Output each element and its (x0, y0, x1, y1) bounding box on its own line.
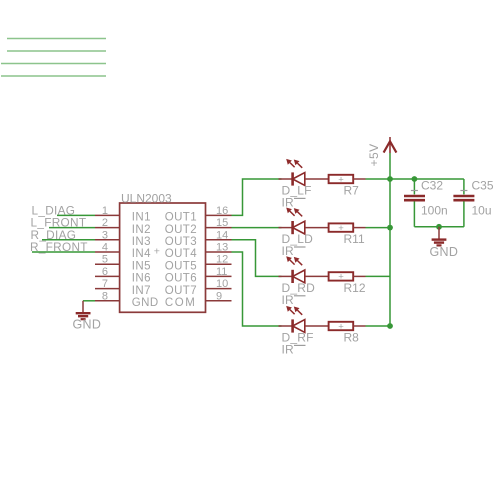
pin 9 stub (206, 300, 232, 302)
svg-text:3: 3 (102, 229, 108, 241)
wire ghost net 1 (faint, top-left) (7, 38, 106, 40)
wire OUT1 riser (232, 179, 282, 215)
wire ghost net 3 (faint, top-left) (1, 63, 106, 65)
svg-text:IR: IR (282, 343, 295, 357)
svg-text:16: 16 (216, 205, 228, 217)
wire net R_FRONT (32, 251, 95, 253)
IR overline D_LF (294, 197, 306, 199)
capacitor C32 (404, 191, 425, 201)
svg-text:+5V: +5V (367, 143, 381, 166)
svg-text:GND: GND (430, 245, 459, 259)
LED D_LD (279, 208, 329, 235)
svg-text:GND: GND (73, 318, 102, 332)
svg-text:IR: IR (282, 293, 295, 307)
svg-text:C35: C35 (472, 179, 494, 193)
pin 10 stub (206, 288, 232, 290)
wire net L_DIAG (57, 214, 95, 216)
svg-text:11: 11 (216, 266, 227, 278)
svg-text:OUT2: OUT2 (165, 224, 197, 236)
svg-text:6: 6 (102, 266, 108, 278)
IC U1 ULN2003 body (120, 203, 206, 312)
pin 5 stub (95, 263, 120, 265)
svg-text:OUT1: OUT1 (165, 212, 197, 224)
wire ghost net 2 (faint, top-left) (7, 50, 106, 52)
svg-text:IN6: IN6 (132, 273, 151, 285)
pin 6 stub (95, 275, 120, 277)
IR overline D_RF (294, 344, 306, 346)
wire pin8 to ground (83, 300, 95, 302)
svg-text:15: 15 (216, 217, 228, 229)
node junction rail row4 (387, 323, 393, 329)
wire C32 top stub (413, 179, 415, 194)
svg-text:IR: IR (282, 244, 295, 258)
IR overline D_RD (294, 295, 306, 297)
svg-text:R12: R12 (344, 281, 366, 295)
svg-text:R7: R7 (344, 184, 360, 198)
svg-text:5: 5 (102, 254, 108, 266)
svg-text:12: 12 (216, 254, 228, 266)
ground GND (right) (432, 227, 447, 246)
LED D_LF (279, 159, 329, 186)
svg-text:IN2: IN2 (132, 224, 151, 236)
svg-text:IN4: IN4 (132, 248, 151, 260)
resistor R11 (329, 223, 366, 234)
pin 4 stub (95, 251, 120, 253)
node junction C32 top (412, 176, 418, 182)
node junction rail row2 (387, 225, 393, 231)
svg-text:IN3: IN3 (132, 236, 151, 248)
ground GND (left) (76, 301, 91, 319)
svg-text:R8: R8 (344, 331, 360, 345)
capacitor C35 (453, 191, 474, 201)
svg-text:+: + (154, 245, 160, 257)
pin 8 stub (95, 300, 120, 302)
svg-text:OUT5: OUT5 (165, 260, 197, 272)
wire C32 bottom stub (413, 201, 415, 226)
node junction rail row1 (387, 176, 393, 182)
pin 14 stub (206, 239, 232, 241)
wire R11 to rail (366, 227, 391, 229)
svg-text:OUT4: OUT4 (165, 248, 197, 260)
svg-text:100n: 100n (421, 203, 448, 217)
svg-text:COM: COM (165, 297, 197, 309)
pin 7 stub (95, 288, 120, 290)
pin 13 stub (206, 251, 232, 253)
pin 16 stub (206, 214, 232, 216)
power +5V symbol (384, 137, 397, 153)
svg-text:9: 9 (216, 290, 222, 302)
resistor R7 (329, 174, 366, 185)
svg-text:ULN2003: ULN2003 (121, 191, 172, 205)
pin 3 stub (95, 239, 120, 241)
svg-text:7: 7 (102, 278, 108, 290)
svg-text:2: 2 (102, 217, 108, 229)
wire ghost net 4 (faint, top-left) (1, 75, 106, 77)
wire C35 bottom stub (463, 201, 465, 226)
svg-text:IN1: IN1 (132, 212, 151, 224)
svg-text:10: 10 (216, 278, 228, 290)
resistor R8 (329, 321, 366, 332)
svg-text:14: 14 (216, 229, 228, 241)
wire net L_FRONT (49, 227, 95, 229)
svg-text:GND: GND (132, 297, 159, 309)
wire rail to capacitors (390, 178, 464, 180)
svg-text:OUT3: OUT3 (165, 236, 197, 248)
svg-text:OUT7: OUT7 (165, 285, 197, 297)
svg-text:10u: 10u (472, 203, 492, 217)
pin 11 stub (206, 275, 232, 277)
IR overline D_LD (294, 246, 306, 248)
node junction GND right (436, 224, 442, 230)
svg-text:4: 4 (102, 242, 108, 254)
wire capacitor bottoms join (414, 226, 464, 228)
svg-text:IR: IR (282, 196, 295, 210)
svg-text:IN7: IN7 (132, 285, 151, 297)
LED D_RD (279, 256, 329, 283)
svg-text:8: 8 (102, 290, 108, 302)
svg-text:13: 13 (216, 242, 228, 254)
wire net R_DIAG (42, 239, 95, 241)
wire OUT2 row (232, 227, 282, 229)
wire R12 to rail (366, 275, 391, 277)
wire +5V rail (389, 153, 391, 326)
resistor R12 (329, 272, 366, 283)
pin 2 stub (95, 227, 120, 229)
svg-text:C32: C32 (421, 179, 443, 193)
wire C35 top stub (463, 179, 465, 194)
wire OUT4 dropper (232, 252, 282, 326)
svg-text:1: 1 (102, 205, 108, 217)
svg-text:OUT6: OUT6 (165, 273, 197, 285)
LED D_RF (279, 306, 329, 333)
svg-text:R11: R11 (344, 232, 365, 246)
svg-text:IN5: IN5 (132, 260, 151, 272)
wire R8 to rail (366, 325, 391, 327)
wire R7 to rail (366, 178, 391, 180)
pin 12 stub (206, 263, 232, 265)
wire OUT3 dropper (232, 240, 282, 277)
pin 15 stub (206, 227, 232, 229)
pin 1 stub (95, 214, 120, 216)
